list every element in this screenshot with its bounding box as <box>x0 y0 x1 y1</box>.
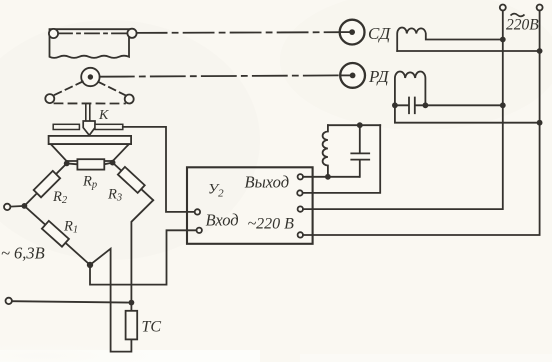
belt cord dashed bottom <box>55 102 126 104</box>
box output terminal 2 <box>297 190 302 195</box>
svg-text:~220 В: ~220 В <box>248 216 295 233</box>
svg-text:220В: 220В <box>506 17 539 34</box>
terminal 6.3V upper <box>4 204 10 210</box>
node left junction <box>22 203 28 209</box>
belt cord dashed right <box>98 82 126 96</box>
chart roller right <box>127 29 136 38</box>
belt corner pulley right <box>125 95 134 104</box>
bridge arm wire R2 <box>24 163 66 206</box>
junction RD on right rail <box>537 120 543 126</box>
svg-text:К: К <box>98 108 109 123</box>
belt cord dashed left <box>53 82 82 96</box>
tank right side wire to output2 <box>303 125 381 193</box>
right 220V rail <box>303 11 540 236</box>
mains terminal left <box>500 5 506 11</box>
magnet trapezoid <box>51 144 129 161</box>
junction coil bottom <box>325 174 331 180</box>
magnet bar <box>49 136 132 144</box>
amplifier box U2 <box>187 167 313 244</box>
inductor L (tank coil) <box>323 125 328 177</box>
node TR junction <box>110 160 116 166</box>
resistor Rp <box>77 159 104 169</box>
node bottom junction <box>87 262 93 268</box>
resistor TC <box>126 311 138 340</box>
box 220V terminal 1 <box>298 206 303 211</box>
label 220V mains <box>511 14 525 17</box>
pen nib <box>83 121 95 135</box>
chart paper drum <box>50 31 130 58</box>
junction SD bottom on right rail <box>537 48 543 54</box>
tank top wire <box>328 124 380 126</box>
chart dash-dot axis line <box>58 32 127 34</box>
terminal lower left <box>6 298 12 304</box>
shaft dash-dot line to motor SD <box>137 31 340 34</box>
pulley <box>81 68 99 86</box>
slidewire bar right <box>95 124 123 129</box>
wire TC bottom loop to bridge bottom node <box>90 249 131 352</box>
box 220V terminal 2 <box>298 232 303 237</box>
node TL junction <box>64 161 70 167</box>
resistor R3 <box>118 167 145 193</box>
bridge arm wire R1 <box>24 206 90 265</box>
pen stem K (double line) <box>86 105 90 122</box>
wire trapezoid to node TR <box>112 161 114 163</box>
junction SD top on left rail <box>500 37 506 43</box>
junction tank top <box>357 122 363 128</box>
wire from slidewire to box input 1 <box>123 127 195 212</box>
left 220V rail <box>303 11 503 210</box>
resistor R2 <box>34 171 60 197</box>
wire bridge right vertex to TC top <box>131 200 153 311</box>
chart roller left <box>49 29 58 38</box>
wire lower terminal to TC junction <box>12 301 131 302</box>
junction RD left <box>392 102 398 108</box>
svg-text:Вход: Вход <box>206 211 239 230</box>
wire terminal to left node <box>10 205 24 208</box>
svg-text:Выход: Выход <box>245 173 290 192</box>
motor RD <box>340 63 365 88</box>
bridge arm wire R3 <box>113 163 154 201</box>
svg-text:ТС: ТС <box>142 319 162 336</box>
motor SD <box>340 20 365 45</box>
slidewire bar left <box>53 124 79 129</box>
svg-text:СД: СД <box>368 24 391 43</box>
junction RD on left rail <box>500 102 506 108</box>
wire RD right to left rail <box>425 104 502 106</box>
junction RD right <box>423 102 429 108</box>
resistor Rp leads <box>67 163 113 165</box>
capacitor C (tank) <box>351 125 369 177</box>
svg-text:РД: РД <box>368 67 390 86</box>
wire trapezoid to node TL <box>66 161 68 163</box>
junction TC top <box>129 300 135 306</box>
SD winding bottom wire <box>397 50 539 52</box>
box output terminal 1 <box>298 174 303 179</box>
SD stator winding <box>397 28 503 51</box>
belt corner pulley left <box>45 94 54 103</box>
capacitor RD phase <box>395 98 426 114</box>
mains terminal right <box>537 5 543 11</box>
resistor R1 <box>42 221 69 247</box>
wire output1 to tank bottom <box>303 176 359 178</box>
box input terminal 1 <box>195 209 200 214</box>
wire bridge bottom node to box input 2 <box>90 230 196 284</box>
RD stator winding <box>395 71 426 105</box>
wire RD left down to right rail <box>395 105 540 122</box>
shaft dash-dot line to motor RD <box>100 75 340 76</box>
box input terminal 2 <box>197 228 202 233</box>
svg-text:~ 6,3В: ~ 6,3В <box>1 244 45 263</box>
